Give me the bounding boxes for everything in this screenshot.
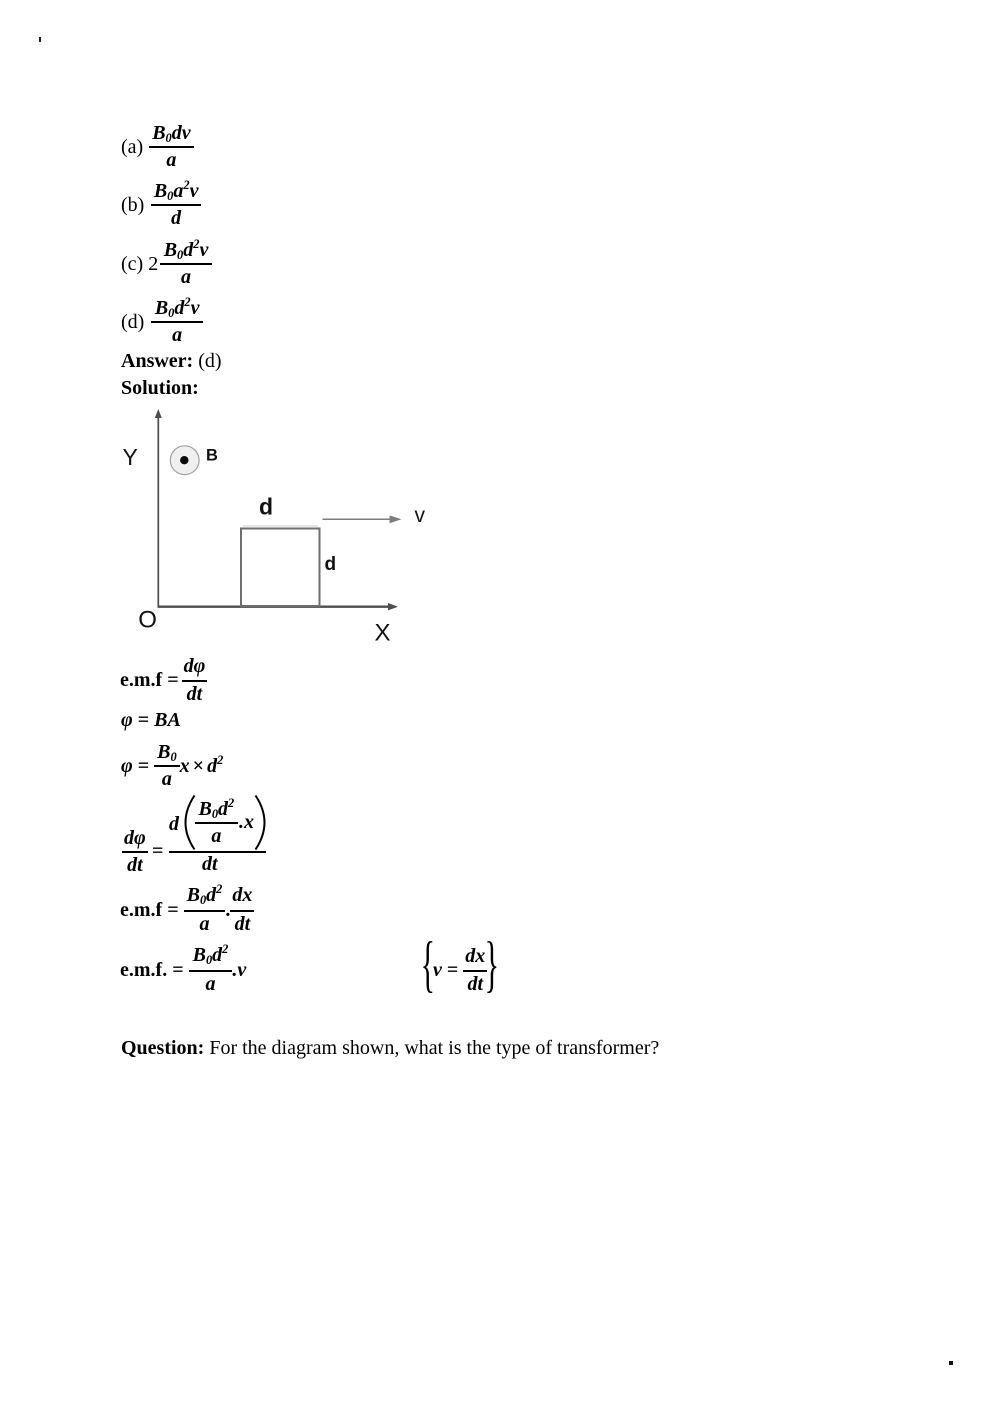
square loop top highlight	[243, 525, 318, 527]
brace note: right brace	[487, 941, 497, 993]
eq4 numerator d	[169, 813, 179, 836]
option (b)	[121, 180, 201, 230]
option (d)	[121, 297, 203, 347]
bottom-right dot	[949, 1361, 953, 1365]
brace note: left brace	[423, 941, 433, 993]
diagram	[120, 405, 450, 655]
svg-text:v: v	[415, 504, 426, 527]
eq4 left fraction d phi / dt	[122, 827, 148, 877]
svg-text:d: d	[259, 494, 273, 520]
eq4 inner fraction B0 d^2 / a	[195, 798, 239, 848]
eq4 main bar	[169, 851, 266, 853]
X axis	[158, 606, 393, 608]
eq4 equals	[152, 840, 163, 863]
Answer line	[121, 350, 222, 373]
svg-text:d: d	[325, 554, 337, 575]
v arrow	[323, 518, 393, 520]
eq4 open paren	[183, 794, 199, 852]
Y axis	[157, 415, 159, 606]
option (c)	[121, 239, 212, 289]
eq6: e.m.f. = B0 d^2/a . v	[120, 944, 246, 996]
top-left tiny mark	[39, 37, 41, 42]
eq1: e.m.f = d phi / dt	[120, 655, 207, 706]
svg-text:Y: Y	[123, 444, 138, 470]
Solution line	[121, 377, 199, 400]
eq4 denominator dt	[202, 853, 218, 876]
svg-text:O: O	[138, 607, 157, 634]
eq3: phi = B0/a x times d^2	[121, 741, 223, 791]
eq4 close paren	[253, 794, 269, 852]
square loop	[241, 529, 320, 607]
eq2: phi = BA	[121, 709, 181, 732]
Question line	[121, 1037, 659, 1060]
svg-text:B: B	[206, 447, 218, 465]
brace note: v = dx/dt	[433, 945, 487, 996]
eq5: e.m.f = B0 d^2/a . dx/dt	[120, 884, 254, 936]
option (a)	[121, 122, 194, 172]
B field circle	[170, 446, 199, 475]
svg-text:X: X	[375, 620, 391, 647]
eq4 .x	[239, 811, 254, 834]
